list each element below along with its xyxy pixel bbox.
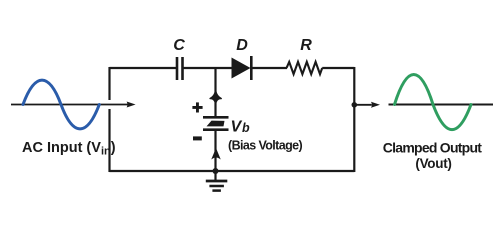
- current arrow lower (up): [212, 149, 219, 158]
- capacitor C: [173, 37, 185, 80]
- wire left vertical lower segment: [108, 109, 110, 172]
- wire ground stub: [214, 171, 216, 181]
- wire bottom: [110, 170, 355, 172]
- current arrow on battery branch (up): [210, 91, 221, 104]
- svg-text:Clamped Output: Clamped Output: [383, 140, 482, 156]
- junction dot at ground node: [213, 168, 219, 174]
- battery plus label: [192, 102, 202, 112]
- wire battery branch upper: [214, 68, 216, 116]
- svg-text:V: V: [231, 119, 243, 136]
- ground: [206, 181, 228, 191]
- output axis line: [389, 104, 494, 106]
- wire resistor to right corner: [322, 67, 354, 69]
- svg-text:(Vout): (Vout): [415, 156, 451, 171]
- svg-text:D: D: [236, 37, 248, 54]
- wire top-left segment (left corner to capacitor): [110, 67, 177, 69]
- wire left vertical upper segment: [108, 67, 110, 100]
- input axis line with arrow: [11, 102, 136, 108]
- wire capacitor to diode (node A): [184, 67, 232, 69]
- svg-text:b: b: [242, 121, 250, 135]
- battery Vb: [203, 117, 250, 135]
- battery minus label: [193, 136, 202, 140]
- output arrow: [354, 102, 380, 108]
- svg-text:C: C: [173, 37, 185, 54]
- wire battery branch lower: [214, 131, 216, 171]
- svg-text:R: R: [300, 37, 312, 54]
- svg-text:(Bias Voltage): (Bias Voltage): [228, 139, 302, 153]
- diode D: [232, 37, 252, 80]
- input sine wave (blue): [23, 80, 99, 129]
- resistor R: [287, 37, 323, 74]
- wire right vertical: [353, 67, 355, 172]
- output sine wave (green, clamped): [395, 75, 472, 130]
- wire diode to resistor: [253, 67, 288, 69]
- junction dot output node: [352, 102, 358, 108]
